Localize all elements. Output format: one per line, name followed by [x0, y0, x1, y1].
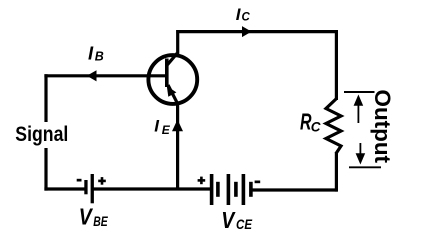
svg-text:BE: BE — [93, 213, 108, 229]
svg-text:E: E — [162, 123, 171, 137]
wire: right vertical lower segment — [335, 152, 338, 192]
battery VCE tall plate 3 — [242, 174, 246, 205]
battery VBE positive tall plate — [91, 174, 94, 203]
label RC — [300, 109, 321, 135]
wire: left vertical upper segment — [44, 74, 47, 122]
svg-text:I: I — [88, 43, 94, 64]
battery VBE negative short plate — [84, 180, 87, 194]
svg-text:V: V — [221, 207, 235, 233]
svg-text:Output: Output — [370, 90, 395, 164]
svg-text:C: C — [242, 12, 251, 24]
label VBE — [79, 204, 108, 230]
svg-text:V: V — [79, 204, 93, 230]
wire: bottom left segment — [44, 187, 85, 190]
plus sign of VBE — [98, 177, 106, 185]
label IE — [154, 116, 171, 137]
svg-text:C: C — [311, 120, 321, 135]
arrowhead IE (pointing up on emitter wire) — [172, 120, 183, 132]
wire: right vertical upper segment — [335, 30, 338, 100]
wire: emitter vertical — [176, 104, 179, 189]
resistor RC zigzag — [326, 99, 341, 154]
svg-text:B: B — [95, 50, 104, 64]
output marker: up arrow — [354, 95, 364, 124]
output marker: top bar — [344, 91, 375, 93]
wire: base horizontal — [44, 74, 166, 77]
battery VCE short plate 2 — [234, 182, 238, 197]
wire: bottom middle segment — [92, 187, 212, 190]
label IB — [88, 43, 104, 64]
battery VCE tall plate 1 — [210, 174, 214, 205]
wire: bottom right segment — [251, 188, 338, 191]
minus sign of VCE — [255, 181, 261, 184]
output marker: down arrow — [356, 143, 366, 165]
svg-text:I: I — [154, 116, 160, 135]
battery VCE short plate 1 — [216, 182, 220, 197]
svg-text:R: R — [300, 109, 312, 135]
transistor Q1 — [148, 53, 197, 105]
wire: collector vertical stub — [176, 30, 179, 55]
plus sign of VCE — [198, 177, 206, 185]
svg-text:CE: CE — [236, 216, 253, 232]
battery VCE short plate 3 — [249, 182, 253, 197]
wire: top horizontal run — [176, 30, 336, 33]
arrowhead IC (pointing right on top wire) — [242, 26, 252, 37]
svg-text:Signal: Signal — [15, 122, 68, 146]
wire: left vertical lower segment — [44, 148, 47, 191]
output marker: bottom bar — [349, 166, 381, 168]
minus sign of VBE — [77, 179, 82, 182]
arrowhead IB (pointing left on base wire) — [87, 70, 97, 81]
label VCE — [221, 207, 252, 233]
label IC — [236, 5, 251, 24]
battery VCE tall plate 2 — [227, 174, 231, 205]
